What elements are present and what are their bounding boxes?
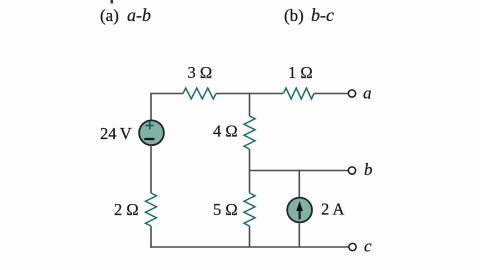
wire: middle vertical between 4ohm and node b-junction bbox=[249, 149, 251, 193]
resistor R 4ohm zigzag bbox=[244, 116, 255, 149]
terminal b open circle bbox=[348, 167, 355, 174]
stray mark (cropped text above) bbox=[111, 0, 114, 4]
svg-text:2 A: 2 A bbox=[321, 200, 344, 219]
svg-text:b: b bbox=[364, 160, 373, 179]
wire: node b horizontal from middle branch to terminal b bbox=[250, 170, 349, 172]
terminal a open circle bbox=[348, 90, 355, 97]
voltage source V1 24V circle bbox=[139, 120, 164, 145]
terminal c open circle bbox=[349, 243, 356, 250]
svg-text:5 Ω: 5 Ω bbox=[213, 200, 238, 219]
wire: middle vertical top segment bbox=[249, 93, 251, 116]
wire: left vertical top segment bbox=[150, 93, 152, 121]
wire: current source branch upper segment bbox=[298, 170, 300, 197]
wire: top-left horizontal segment bbox=[151, 93, 183, 95]
wire: top right horizontal to terminal a bbox=[314, 93, 348, 95]
svg-text:c: c bbox=[364, 237, 372, 256]
resistor R 3ohm zigzag bbox=[183, 88, 216, 99]
svg-text:a: a bbox=[363, 84, 372, 103]
svg-text:3 Ω: 3 Ω bbox=[188, 63, 213, 82]
svg-text:4 Ω: 4 Ω bbox=[213, 122, 238, 141]
svg-text:2 Ω: 2 Ω bbox=[114, 200, 139, 219]
svg-text:b-c: b-c bbox=[311, 5, 334, 25]
resistor R 2ohm zigzag bbox=[146, 193, 157, 226]
svg-text:1 Ω: 1 Ω bbox=[288, 63, 313, 82]
svg-text:(a): (a) bbox=[100, 6, 119, 25]
wire: left vertical middle segment bbox=[150, 145, 152, 193]
wire: bottom horizontal to terminal c bbox=[150, 246, 349, 248]
resistor R 5ohm zigzag bbox=[244, 193, 255, 226]
wire: top middle horizontal segment bbox=[216, 93, 283, 95]
current source I1 2A circle with up arrow bbox=[287, 198, 312, 223]
wire: current source branch lower segment bbox=[298, 223, 300, 247]
svg-text:24 V: 24 V bbox=[100, 124, 132, 143]
svg-text:a-b: a-b bbox=[127, 5, 151, 25]
resistor R 1ohm zigzag bbox=[284, 88, 315, 99]
wire: middle vertical bottom segment bbox=[249, 226, 251, 247]
caption (b) b-c bbox=[284, 5, 334, 25]
caption (a) a-b bbox=[100, 5, 151, 25]
svg-text:(b): (b) bbox=[284, 6, 304, 25]
wire: left vertical bottom segment bbox=[150, 226, 152, 248]
